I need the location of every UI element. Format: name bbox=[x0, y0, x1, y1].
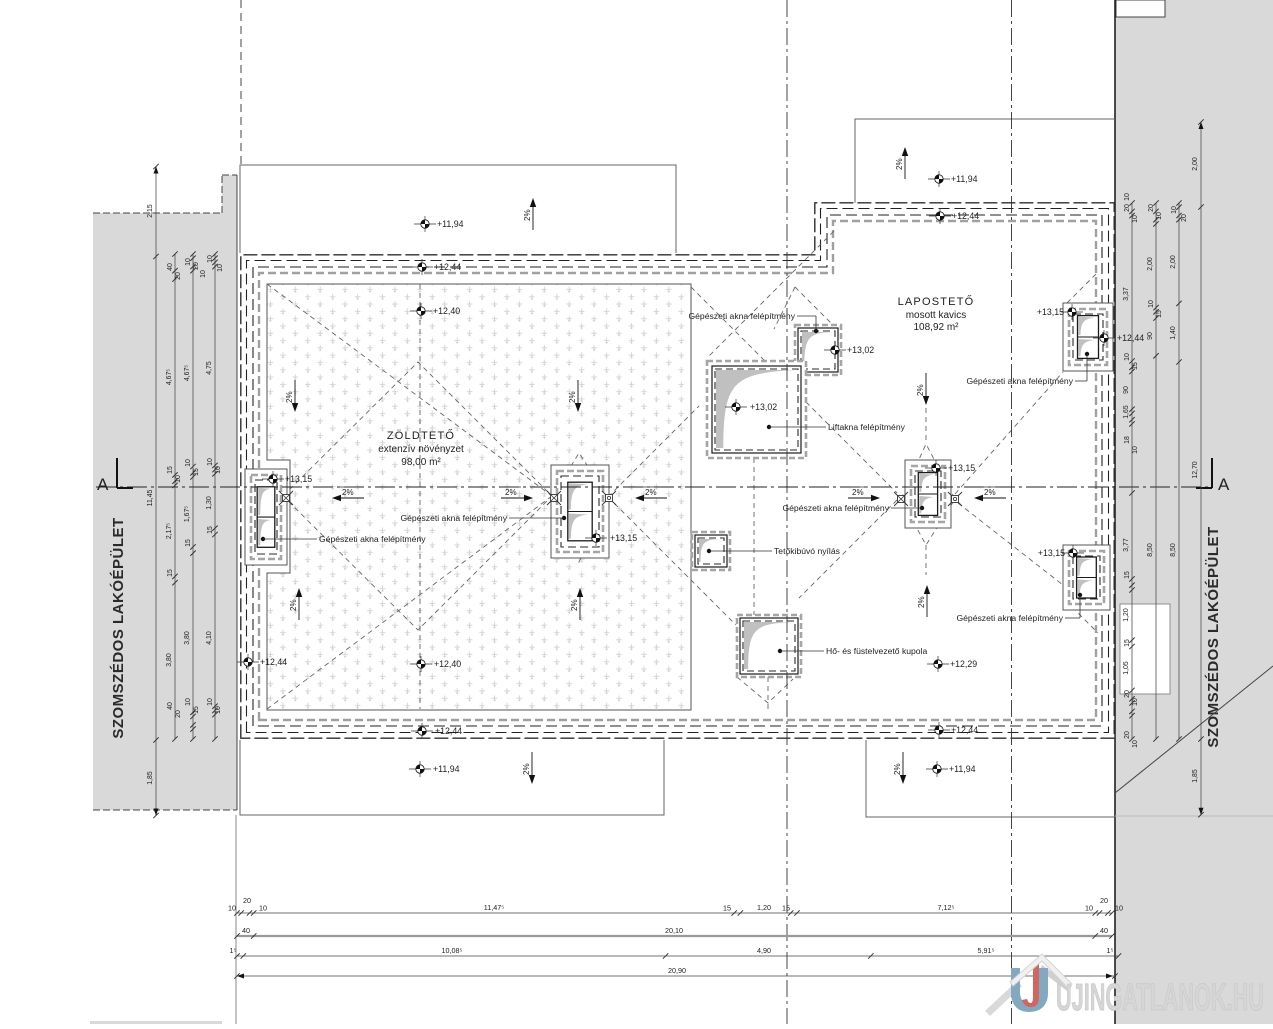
svg-text:+12,44: +12,44 bbox=[434, 262, 461, 272]
svg-text:10: 10 bbox=[1132, 446, 1139, 454]
svg-text:10: 10 bbox=[207, 255, 214, 263]
roof drain right of middle hatch bbox=[602, 491, 616, 505]
svg-text:LAPOSTETŐ: LAPOSTETŐ bbox=[898, 294, 975, 308]
svg-text:15: 15 bbox=[185, 539, 192, 547]
bottom-left gray sliver bbox=[90, 1021, 222, 1024]
right neighbour building block (SZOMSZÉDOS LAKÓÉPÜLET) bbox=[1115, 0, 1273, 1024]
elevation marker +11,94 (bottom-right strip) bbox=[926, 761, 976, 777]
svg-text:15: 15 bbox=[193, 468, 200, 476]
svg-text:20: 20 bbox=[1124, 731, 1131, 739]
left dimension chain B bbox=[174, 254, 176, 739]
svg-text:2%: 2% bbox=[895, 158, 904, 170]
neighbour lower edge line in right gray bbox=[1115, 815, 1273, 817]
bottom dimension chain row 1 bbox=[237, 912, 1112, 914]
label: gépészeti akna felépítmény (left hatch) bbox=[261, 534, 426, 544]
svg-text:1,05: 1,05 bbox=[1123, 661, 1130, 675]
svg-text:2,17⁵: 2,17⁵ bbox=[166, 523, 173, 539]
svg-text:ZÖLDTETŐ: ZÖLDTETŐ bbox=[387, 428, 455, 442]
svg-text:2%: 2% bbox=[505, 488, 517, 497]
svg-text:10: 10 bbox=[175, 475, 182, 483]
svg-text:15: 15 bbox=[167, 569, 174, 577]
svg-text:3,80: 3,80 bbox=[166, 653, 173, 667]
svg-text:1⁵: 1⁵ bbox=[230, 946, 237, 955]
svg-text:10: 10 bbox=[207, 458, 214, 466]
roof hatch: gépészeti akna (lower right) bbox=[1063, 545, 1110, 610]
section line A-A bbox=[96, 486, 1212, 488]
svg-text:1,30: 1,30 bbox=[206, 496, 213, 510]
svg-text:2%: 2% bbox=[916, 384, 925, 396]
svg-text:15: 15 bbox=[1124, 571, 1131, 579]
svg-text:4,75: 4,75 bbox=[206, 361, 213, 375]
svg-text:2,15: 2,15 bbox=[147, 204, 154, 218]
left dimension chain A (2,15 / 11,45 / 1,85) bbox=[155, 167, 157, 816]
right dimension chain R4 (2,00 top / 12,70 / 1,85) bbox=[1200, 122, 1202, 815]
svg-text:4,10: 4,10 bbox=[206, 631, 213, 645]
svg-text:20: 20 bbox=[1100, 896, 1108, 905]
svg-text:4,90: 4,90 bbox=[757, 946, 771, 955]
svg-text:15: 15 bbox=[1132, 362, 1139, 370]
svg-text:10: 10 bbox=[217, 264, 224, 272]
elevation marker +13,15 (central hatch) bbox=[925, 460, 975, 476]
svg-text:8,50: 8,50 bbox=[1170, 543, 1177, 557]
svg-text:2%: 2% bbox=[645, 488, 657, 497]
svg-text:+13,15: +13,15 bbox=[285, 474, 312, 484]
svg-text:10,08⁵: 10,08⁵ bbox=[442, 946, 463, 955]
svg-text:3,77: 3,77 bbox=[1123, 538, 1130, 552]
svg-text:5,91⁵: 5,91⁵ bbox=[978, 946, 995, 955]
svg-text:Gépészeti akna felépítmény: Gépészeti akna felépítmény bbox=[400, 513, 507, 523]
svg-text:40: 40 bbox=[167, 702, 174, 710]
svg-text:2%: 2% bbox=[852, 488, 864, 497]
svg-text:11,45: 11,45 bbox=[147, 489, 154, 506]
svg-text:10: 10 bbox=[1171, 206, 1178, 214]
svg-text:+11,94: +11,94 bbox=[951, 174, 978, 184]
elevation marker +11,94 (bottom-left strip) bbox=[409, 761, 460, 777]
2%% slope arrow bbox=[895, 147, 908, 179]
elevation marker +13,15 (upper-right hatch) bbox=[1061, 304, 1083, 320]
bottom-left parapet strip bbox=[240, 740, 664, 815]
svg-text:2,00: 2,00 bbox=[1192, 157, 1199, 171]
elevation marker +12,44 (right roof edge) bbox=[1093, 330, 1144, 346]
svg-text:Gépészeti akna felépítmény: Gépészeti akna felépítmény bbox=[956, 613, 1063, 623]
right dimension chain R3 bbox=[1178, 203, 1180, 739]
svg-text:2%: 2% bbox=[893, 763, 902, 775]
left dimension chain D bbox=[214, 254, 216, 739]
section marker A left bbox=[97, 458, 133, 494]
svg-text:+13,02: +13,02 bbox=[750, 402, 777, 412]
svg-text:10: 10 bbox=[185, 698, 192, 706]
roof parapet band: inner insulation line (gray) bbox=[259, 221, 1096, 720]
roof drain at left hatch bbox=[279, 491, 293, 505]
svg-text:1,85: 1,85 bbox=[147, 771, 154, 785]
svg-text:20: 20 bbox=[175, 710, 182, 718]
svg-text:10: 10 bbox=[185, 459, 192, 467]
top boundary dashed line above strip bbox=[240, 0, 242, 165]
svg-text:Gépészeti akna felépítmény: Gépészeti akna felépítmény bbox=[688, 311, 795, 321]
elevation marker +11,94 (top-right strip) bbox=[928, 171, 978, 187]
roof parapet band: dashed line 3 bbox=[253, 215, 1102, 726]
svg-text:4,67⁵: 4,67⁵ bbox=[184, 365, 191, 381]
svg-text:Hő- és füstelvezető kupola: Hő- és füstelvezető kupola bbox=[826, 646, 927, 656]
svg-text:20: 20 bbox=[175, 272, 182, 280]
roof hatch: hő- és füstelvezető kupola bbox=[737, 615, 801, 677]
left dimension chain C bbox=[192, 254, 194, 739]
label: gépészeti akna felépítmény (middle hatch) bbox=[400, 513, 566, 523]
svg-text:+12,40: +12,40 bbox=[434, 659, 461, 669]
right dimension chain R2 bbox=[1155, 203, 1157, 739]
svg-text:20: 20 bbox=[243, 896, 251, 905]
elevation marker +12,44 (flat roof bottom edge) bbox=[928, 722, 978, 738]
svg-text:10: 10 bbox=[228, 904, 236, 913]
svg-text:18: 18 bbox=[1124, 436, 1131, 444]
svg-text:10: 10 bbox=[259, 904, 267, 913]
watermark logo J bbox=[1022, 964, 1039, 1007]
roof hatch: gépészeti akna (+13,02 small) bbox=[795, 325, 841, 375]
svg-text:+13,15: +13,15 bbox=[1038, 548, 1065, 558]
svg-text:+11,94: +11,94 bbox=[949, 764, 976, 774]
svg-text:1,67⁵: 1,67⁵ bbox=[184, 506, 191, 522]
svg-text:1,40: 1,40 bbox=[1170, 326, 1177, 340]
2%% slope arrow bbox=[289, 588, 302, 620]
svg-text:8,50: 8,50 bbox=[1147, 543, 1154, 557]
svg-text:10: 10 bbox=[207, 698, 214, 706]
svg-text:2%: 2% bbox=[917, 596, 926, 608]
elevation marker +12,40 (green roof bottom) bbox=[410, 656, 461, 672]
left neighbour building block (SZOMSZÉDOS LAKÓÉPÜLET) bbox=[93, 175, 237, 810]
elevation marker +12,44 (flat roof top edge) bbox=[929, 208, 979, 224]
label: tetőkibúvó nyílás bbox=[707, 546, 840, 556]
right dimension chain R1 bbox=[1131, 203, 1133, 739]
elevation marker +12,44 (green roof left edge) bbox=[237, 654, 287, 670]
2%% slope arrow bbox=[916, 373, 929, 405]
svg-text:98,00 m²: 98,00 m² bbox=[401, 457, 441, 468]
svg-text:+13,15: +13,15 bbox=[610, 533, 637, 543]
svg-text:2%: 2% bbox=[984, 488, 996, 497]
svg-text:15: 15 bbox=[723, 904, 731, 913]
svg-text:90: 90 bbox=[1147, 332, 1154, 340]
2%% slope arrow bbox=[917, 585, 930, 617]
roof drain left of central hatch bbox=[894, 492, 908, 506]
watermark logo swoosh bbox=[985, 954, 1072, 1016]
svg-text:extenzív növényzet: extenzív növényzet bbox=[378, 444, 464, 455]
2%% slope arrow bbox=[285, 380, 298, 412]
roof hatch: gépészeti akna (left edge) bbox=[245, 469, 287, 565]
svg-text:2%: 2% bbox=[568, 391, 577, 403]
svg-text:20,90: 20,90 bbox=[668, 966, 686, 975]
svg-text:+12,44: +12,44 bbox=[1117, 333, 1144, 343]
watermark roof chevron bbox=[1010, 954, 1072, 988]
svg-text:A: A bbox=[1218, 475, 1230, 494]
2%% slope arrow on section line bbox=[501, 487, 533, 501]
2%% slope arrow on section line bbox=[332, 487, 364, 501]
svg-text:+12,40: +12,40 bbox=[433, 306, 460, 316]
svg-text:108,92 m²: 108,92 m² bbox=[913, 322, 959, 333]
svg-text:4,67⁵: 4,67⁵ bbox=[166, 369, 173, 385]
svg-text:12,70: 12,70 bbox=[1192, 461, 1199, 478]
bottom dimension chain row 3 bbox=[237, 955, 1119, 957]
svg-text:10: 10 bbox=[1124, 353, 1131, 361]
svg-text:10: 10 bbox=[1148, 300, 1155, 308]
elevation marker +13,02 (liftakna) bbox=[725, 399, 777, 415]
svg-text:+13,15: +13,15 bbox=[948, 463, 975, 473]
2%% slope arrow bbox=[568, 380, 581, 412]
svg-text:Gépészeti akna felépítmény: Gépészeti akna felépítmény bbox=[319, 534, 426, 544]
svg-text:Liftakna felépítmény: Liftakna felépítmény bbox=[828, 422, 906, 432]
vertical axis line 2 bbox=[1011, 0, 1013, 1024]
green roof area (ZÖLDTETŐ) dotted fill bbox=[267, 284, 691, 710]
svg-text:10: 10 bbox=[215, 706, 222, 714]
svg-text:2%: 2% bbox=[523, 209, 532, 221]
elevation marker +12,44 (green roof bottom edge) bbox=[411, 723, 462, 739]
svg-text:10: 10 bbox=[1156, 212, 1163, 220]
elevation marker +13,02 (small hatch) bbox=[824, 342, 874, 358]
label: gépészeti akna felépítmény (lower right hatch) bbox=[956, 593, 1082, 623]
section marker A right bbox=[1196, 458, 1230, 494]
roof hatch: gépészeti akna (central, flat roof) bbox=[905, 460, 951, 528]
roof parapet band: dashed line 2 bbox=[247, 209, 1109, 733]
svg-text:10: 10 bbox=[185, 258, 192, 266]
bottom dimension chain row 2 bbox=[237, 935, 1112, 937]
2%% slope arrow on section line bbox=[635, 487, 667, 501]
svg-text:Gépészeti akna felépítmény: Gépészeti akna felépítmény bbox=[966, 376, 1073, 386]
roof drain right of central hatch bbox=[948, 492, 962, 506]
svg-text:15: 15 bbox=[782, 904, 790, 913]
svg-text:40: 40 bbox=[167, 263, 174, 271]
roof hatch: liftakna felépítmény bbox=[707, 361, 806, 458]
svg-text:20: 20 bbox=[193, 262, 200, 270]
roof hatch: gépészeti akna (middle of green roof) bbox=[551, 465, 609, 558]
svg-text:10: 10 bbox=[200, 270, 207, 278]
svg-text:11,47⁵: 11,47⁵ bbox=[484, 903, 504, 912]
vertical axis line 1 bbox=[786, 0, 788, 1024]
svg-text:2,00: 2,00 bbox=[1170, 255, 1177, 269]
svg-text:10: 10 bbox=[1132, 215, 1139, 223]
svg-text:3,37: 3,37 bbox=[1123, 287, 1130, 301]
svg-text:10: 10 bbox=[215, 466, 222, 474]
svg-text:+12,44: +12,44 bbox=[951, 725, 978, 735]
roof hatch: gépészeti akna (upper right) bbox=[1063, 303, 1113, 371]
svg-text:2%: 2% bbox=[289, 599, 298, 611]
svg-text:15: 15 bbox=[193, 706, 200, 714]
watermark logo U bbox=[1011, 968, 1048, 1012]
elevation marker +11,94 (top-left strip) bbox=[414, 216, 464, 232]
svg-text:3,80: 3,80 bbox=[184, 631, 191, 645]
label: gépészeti akna felépítmény (central hatch) bbox=[782, 503, 924, 513]
svg-text:15: 15 bbox=[207, 526, 214, 534]
svg-text:20: 20 bbox=[1148, 204, 1155, 212]
svg-text:+12,29: +12,29 bbox=[950, 659, 977, 669]
svg-text:10: 10 bbox=[1085, 904, 1093, 913]
2%% slope arrow bbox=[893, 752, 906, 784]
svg-text:2%: 2% bbox=[570, 599, 579, 611]
svg-text:+12,44: +12,44 bbox=[435, 726, 462, 736]
svg-text:+12,44: +12,44 bbox=[260, 657, 287, 667]
svg-text:10: 10 bbox=[1124, 193, 1131, 201]
svg-text:1,65: 1,65 bbox=[1123, 405, 1130, 419]
2%% slope arrow bbox=[570, 588, 583, 620]
elevation marker +12,40 (green roof top) bbox=[410, 303, 460, 319]
elevation marker +12,44 (green roof top edge) bbox=[411, 259, 461, 275]
svg-text:10: 10 bbox=[1115, 904, 1123, 913]
drainage ridge/valley dashed lines bbox=[283, 362, 552, 630]
svg-text:+13,02: +13,02 bbox=[847, 345, 874, 355]
svg-text:UJINGATLANOK.HU: UJINGATLANOK.HU bbox=[1056, 977, 1264, 1019]
bottom dimension chain row 4 (20,90) bbox=[237, 975, 1115, 977]
svg-text:2%: 2% bbox=[342, 488, 354, 497]
svg-text:20,10: 20,10 bbox=[665, 926, 683, 935]
2%% slope arrow bbox=[523, 198, 536, 230]
svg-text:20: 20 bbox=[1124, 204, 1131, 212]
svg-text:2%: 2% bbox=[285, 391, 294, 403]
svg-text:2,00: 2,00 bbox=[1147, 257, 1154, 271]
top-left parapet strip bbox=[240, 165, 676, 253]
svg-text:2%: 2% bbox=[522, 763, 531, 775]
top-right parapet strip bbox=[855, 119, 1115, 203]
svg-text:mosott kavics: mosott kavics bbox=[906, 310, 967, 321]
svg-text:20: 20 bbox=[1181, 214, 1188, 222]
bottom-right parapet strip bbox=[866, 740, 1115, 817]
2%% slope arrow bbox=[522, 752, 535, 784]
svg-text:10: 10 bbox=[1132, 740, 1139, 748]
roof parapet band: outer edge dashed line bbox=[241, 203, 1114, 738]
svg-text:40: 40 bbox=[242, 926, 250, 935]
svg-text:+12,44: +12,44 bbox=[952, 211, 979, 221]
svg-text:Tetőkibúvó nyílás: Tetőkibúvó nyílás bbox=[774, 546, 840, 556]
roof drain left of middle hatch bbox=[547, 491, 561, 505]
svg-text:15: 15 bbox=[167, 466, 174, 474]
svg-text:+11,94: +11,94 bbox=[437, 219, 464, 229]
elevation marker +13,15 (middle hatch) bbox=[585, 530, 637, 546]
svg-text:1⁵: 1⁵ bbox=[1107, 946, 1114, 955]
label: liftakna felépítmény bbox=[767, 422, 906, 432]
building edge below left gray bbox=[235, 815, 237, 1024]
label: gépészeti akna felépítmény (small +13,02 hatch) bbox=[688, 311, 818, 333]
label: gépészeti akna felépítmény (upper right hatch) bbox=[966, 352, 1089, 386]
svg-text:1,20: 1,20 bbox=[757, 903, 771, 912]
2%% slope arrow on section line bbox=[974, 487, 1006, 501]
elevation marker +12,29 (flat roof bottom) bbox=[927, 656, 977, 672]
2%% slope arrow on section line bbox=[848, 487, 880, 501]
svg-text:20: 20 bbox=[1124, 690, 1131, 698]
svg-text:+13,15: +13,15 bbox=[1037, 307, 1064, 317]
svg-text:40: 40 bbox=[1100, 926, 1108, 935]
svg-text:90: 90 bbox=[1123, 386, 1130, 394]
diagonal lot line in right gray bbox=[1115, 666, 1273, 793]
elevation marker +13,15 (left hatch) bbox=[262, 471, 312, 487]
svg-text:A: A bbox=[97, 475, 109, 494]
label: hő- és füstelvezető kupola bbox=[778, 646, 928, 656]
svg-text:15: 15 bbox=[1156, 310, 1163, 318]
svg-text:1,85: 1,85 bbox=[1192, 769, 1199, 783]
elevation marker +13,15 (lower-right hatch) bbox=[1062, 545, 1084, 561]
svg-text:10: 10 bbox=[1132, 698, 1139, 706]
svg-text:+11,94: +11,94 bbox=[433, 764, 460, 774]
svg-text:Gépészeti akna felépítmény: Gépészeti akna felépítmény bbox=[782, 503, 889, 513]
svg-text:7,12⁵: 7,12⁵ bbox=[938, 903, 955, 912]
svg-text:15: 15 bbox=[1124, 639, 1131, 647]
svg-text:1,20: 1,20 bbox=[1123, 608, 1130, 622]
svg-text:SZOMSZÉDOS LAKÓÉPÜLET: SZOMSZÉDOS LAKÓÉPÜLET bbox=[109, 517, 127, 738]
roof hatch: tetőkibúvó nyílás bbox=[692, 532, 730, 570]
